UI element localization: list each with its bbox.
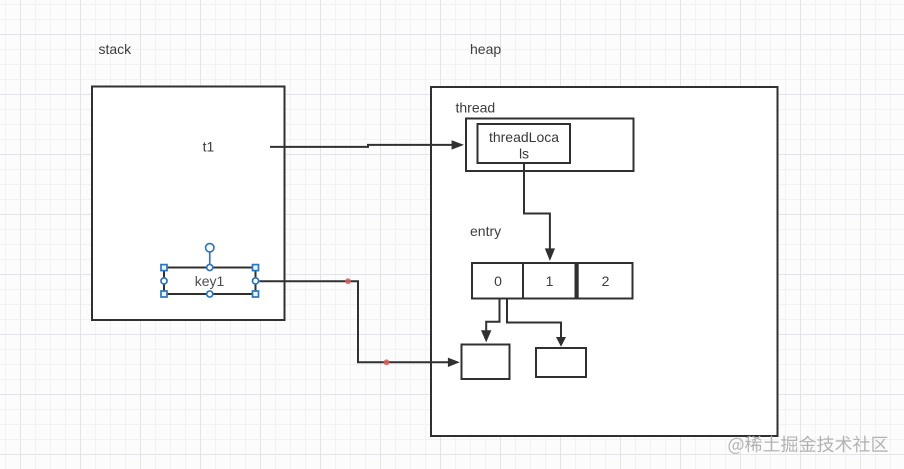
svg-text:heap: heap — [470, 41, 501, 57]
left value box — [462, 345, 510, 380]
selection handle top-left — [161, 265, 167, 271]
selection handle top-right — [253, 265, 259, 271]
selection handle bottom-mid — [207, 291, 213, 297]
thick divider between entry cell 1 and cell 2 — [575, 262, 579, 300]
arrow threadLocals to entry array — [524, 163, 555, 261]
watermark juejin community — [729, 436, 888, 454]
entry cell 2 — [578, 263, 633, 299]
entry cell 0 — [472, 263, 523, 299]
box heap frame — [431, 87, 778, 436]
entry cell 1 — [523, 263, 576, 299]
svg-text:1: 1 — [546, 273, 554, 289]
waypoint dot 1 — [345, 278, 351, 284]
waypoint dot 2 — [384, 359, 390, 365]
right value box — [536, 348, 586, 377]
box stack frame — [92, 87, 285, 321]
box threadLocals inner — [478, 124, 571, 163]
svg-text:t1: t1 — [203, 139, 215, 155]
box threadLocals outer — [466, 119, 634, 172]
arrow entry cell 0 to left value box — [481, 298, 500, 343]
svg-text:2: 2 — [602, 273, 610, 289]
svg-text:ls: ls — [519, 146, 529, 162]
selection rotation handle — [206, 244, 214, 265]
selection handle bottom-right — [253, 291, 259, 297]
svg-text:thread: thread — [456, 100, 496, 116]
arrow t1 to threadLocals — [270, 140, 464, 149]
svg-text:threadLoca: threadLoca — [489, 129, 559, 145]
svg-text:entry: entry — [470, 223, 501, 239]
arrow entry cell 0 to right value box — [507, 298, 566, 347]
selection handle bottom-left — [161, 291, 167, 297]
box key1 — [164, 268, 256, 295]
svg-text:stack: stack — [99, 41, 133, 57]
selection handle left-mid — [161, 278, 167, 284]
selection handle top-mid — [207, 264, 213, 270]
svg-text:key1: key1 — [195, 273, 225, 289]
selection handle right-mid — [252, 278, 258, 284]
svg-text:0: 0 — [494, 273, 502, 289]
arrow key1 to left value box — [259, 281, 459, 367]
